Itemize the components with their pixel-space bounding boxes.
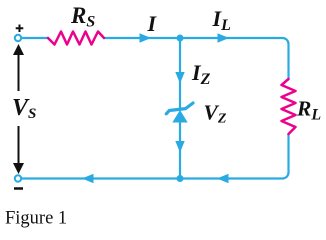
svg-text:IZ: IZ bbox=[191, 60, 211, 88]
current arrow I_L bbox=[218, 33, 230, 42]
source VS minus sign bbox=[14, 187, 23, 190]
junction node A (top) bbox=[177, 35, 184, 42]
terminal node + (top-left open circle) bbox=[15, 35, 21, 41]
source VS down arrow bbox=[13, 126, 24, 174]
current arrow bottom-right (left) bbox=[217, 174, 229, 183]
svg-text:RL: RL bbox=[296, 97, 321, 124]
svg-text:RS: RS bbox=[70, 3, 95, 31]
svg-text:Figure 1: Figure 1 bbox=[5, 209, 67, 229]
junction node B (bottom) bbox=[177, 175, 184, 182]
current arrow I_Z bbox=[175, 72, 184, 84]
zener diode VZ bbox=[166, 103, 193, 123]
wire right-bottom (RL to bottom corner) bbox=[180, 134, 289, 179]
current arrow bottom-left (left) bbox=[82, 174, 94, 183]
current arrow I bbox=[140, 33, 152, 42]
svg-text:VZ: VZ bbox=[204, 101, 227, 127]
wire top-left (node to RS) bbox=[21, 37, 48, 39]
source VS plus sign bbox=[16, 25, 24, 33]
resistor R_S bbox=[48, 32, 104, 45]
wire top-right and right side down to RL bbox=[180, 38, 289, 79]
svg-text:I: I bbox=[147, 11, 158, 36]
source VS up arrow bbox=[13, 44, 24, 91]
wire middle branch upper (junction A to zener) bbox=[179, 38, 181, 110]
wire top-middle (RS to junction A) bbox=[104, 37, 180, 39]
terminal node - (bottom-left open circle) bbox=[15, 175, 21, 181]
svg-text:VS: VS bbox=[12, 95, 36, 122]
resistor R_L bbox=[282, 79, 296, 134]
current arrow middle-lower (down) bbox=[175, 141, 184, 153]
svg-text:IL: IL bbox=[212, 6, 232, 34]
wire bottom-left (junction B to node) bbox=[21, 177, 180, 179]
wire middle branch lower (zener to junction B) bbox=[179, 121, 181, 179]
